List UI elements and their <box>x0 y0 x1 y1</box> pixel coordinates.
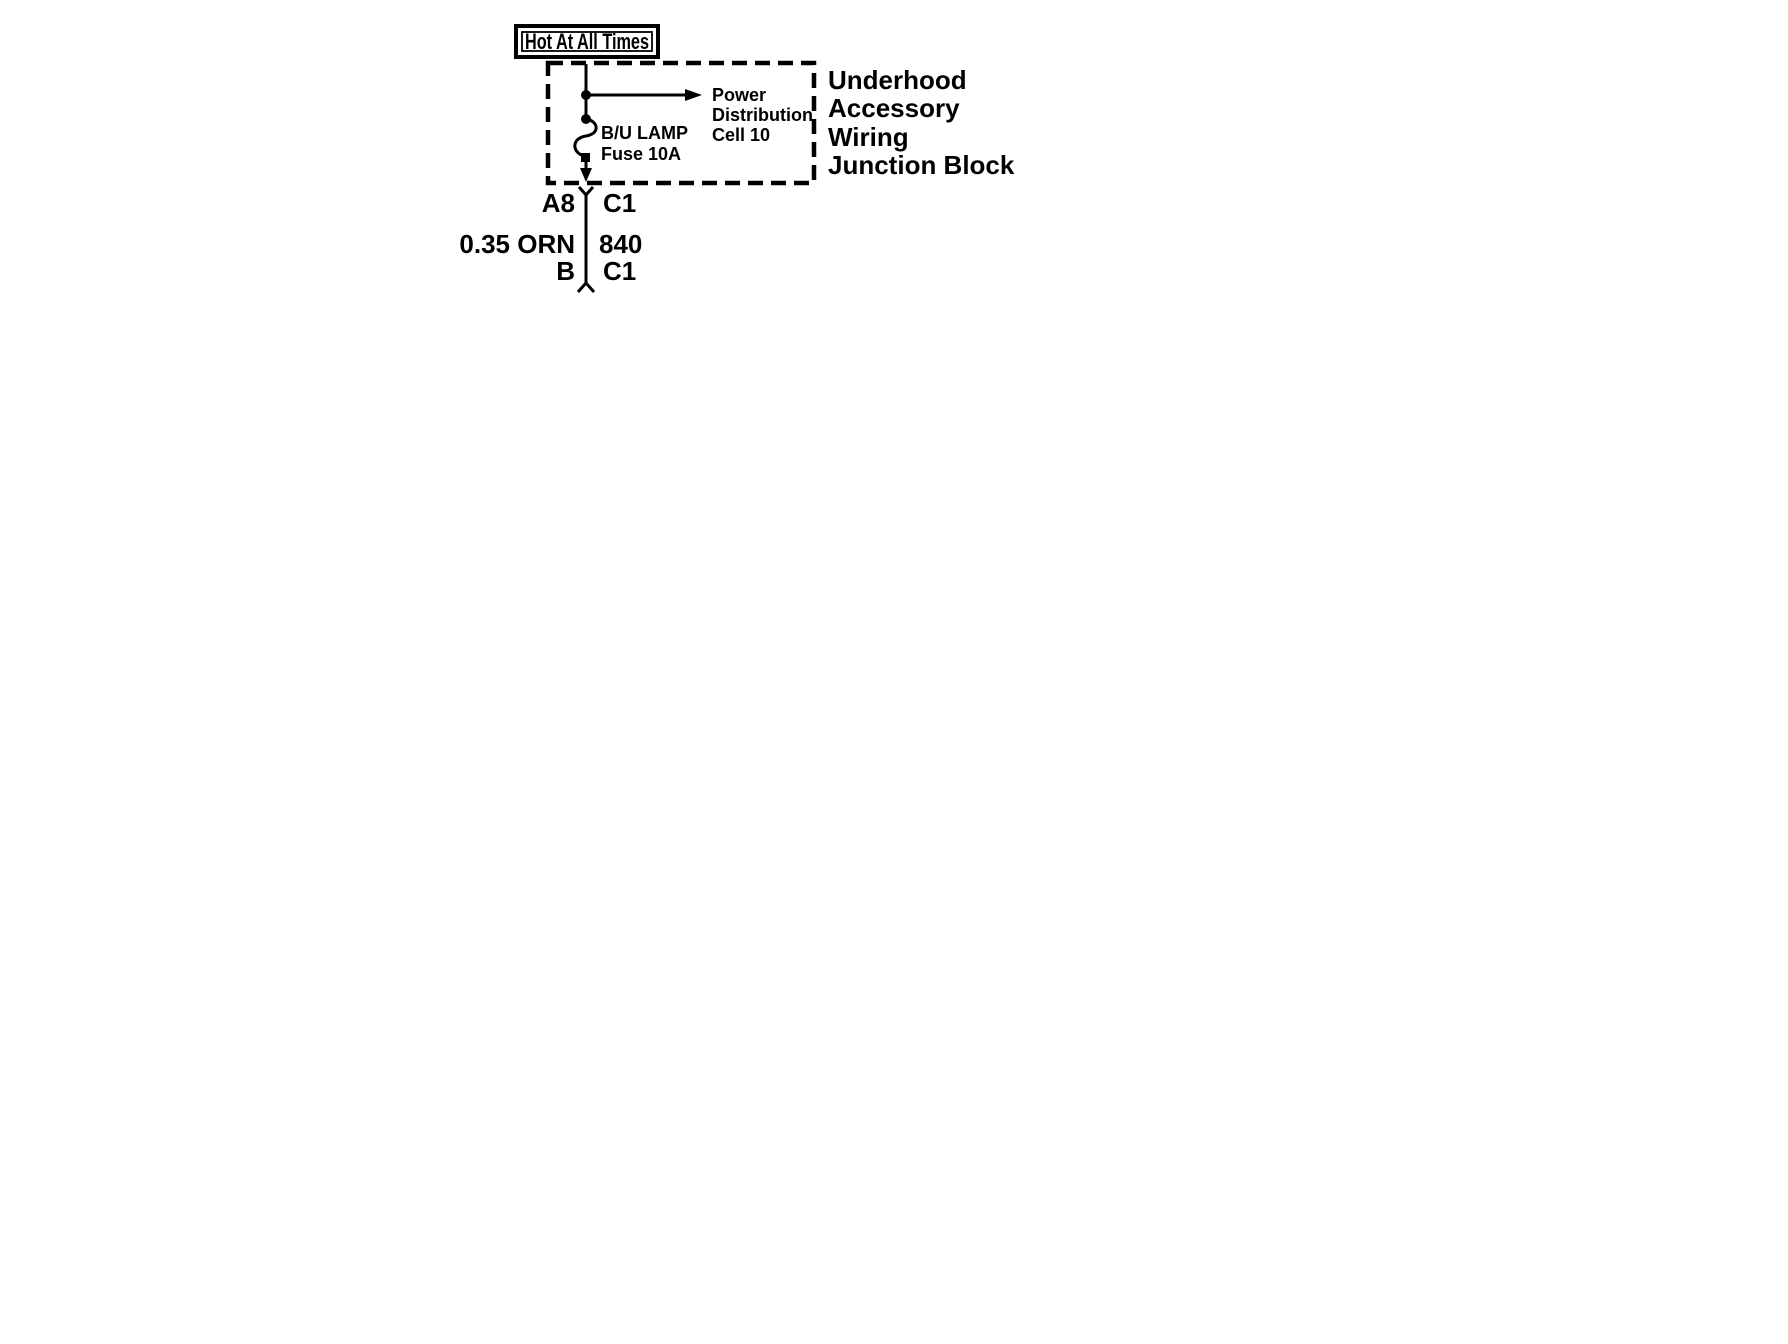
svg-text:Hot At All Times: Hot At All Times <box>525 29 649 54</box>
wire: fuse output exits block (down arrow) <box>580 158 592 182</box>
connector C1 pin B (male) <box>556 256 636 292</box>
svg-text:B/U LAMP: B/U LAMP <box>601 123 688 143</box>
wire: feed into junction block <box>585 64 588 119</box>
svg-text:A8: A8 <box>542 188 575 218</box>
svg-text:C1: C1 <box>603 256 636 286</box>
junction block U1: Underhood Accessory Wiring Junction Block (dashed outline) <box>548 63 814 183</box>
label: Underhood Accessory Wiring Junction Block <box>828 65 1015 180</box>
wire: 0.35 ORN 840 <box>459 195 642 283</box>
svg-text:Wiring: Wiring <box>828 122 909 152</box>
connector C1 pin A8 (female) <box>542 187 637 218</box>
svg-text:Underhood: Underhood <box>828 65 967 95</box>
power feed label box: Hot At All Times <box>516 26 658 57</box>
svg-text:Fuse 10A: Fuse 10A <box>601 144 681 164</box>
svg-text:Distribution: Distribution <box>712 105 813 125</box>
svg-text:Cell 10: Cell 10 <box>712 125 770 145</box>
svg-text:840: 840 <box>599 229 642 259</box>
svg-text:B: B <box>556 256 575 286</box>
node: splice to power distribution <box>581 90 591 100</box>
svg-text:0.35 ORN: 0.35 ORN <box>459 229 575 259</box>
svg-text:Junction Block: Junction Block <box>828 150 1015 180</box>
svg-text:C1: C1 <box>603 188 636 218</box>
svg-text:Accessory: Accessory <box>828 93 960 123</box>
fuse F1: B/U LAMP Fuse 10A <box>575 114 688 164</box>
wire: arrow to Power Distribution Cell 10 <box>586 85 813 145</box>
svg-text:Power: Power <box>712 85 766 105</box>
